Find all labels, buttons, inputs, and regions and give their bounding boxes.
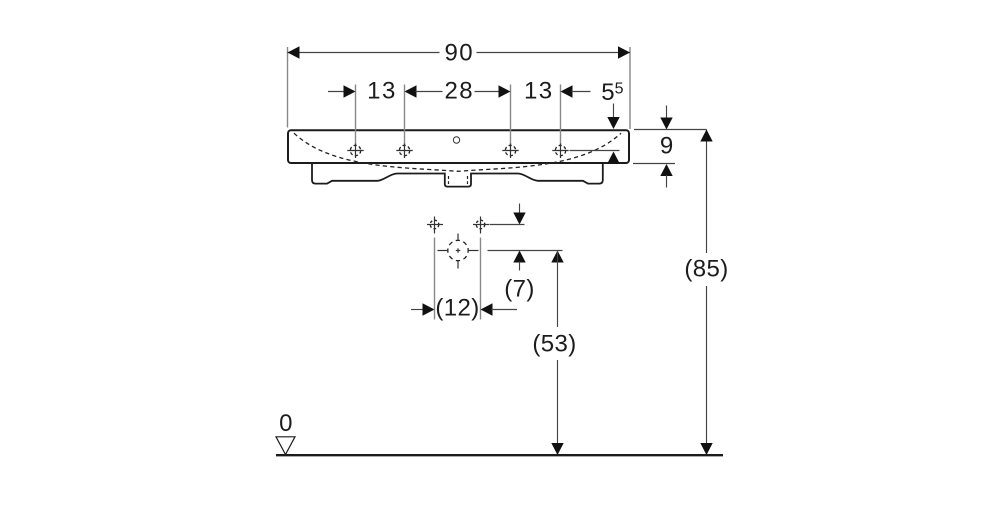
dimension 53 line upper [557,251,559,328]
dimension 85 line upper [706,130,708,254]
dimension 5.5 down arrow [607,117,619,129]
dimension 7 down arrow [513,213,525,225]
washbasin body rectangle [288,130,629,163]
svg-text:(12): (12) [435,295,479,322]
overflow hole [453,137,459,143]
basin interior dashed curve [294,133,621,171]
dimension 85 line lower [706,286,708,455]
svg-text:(85): (85) [684,256,728,283]
dimension 85 up arrow [700,130,712,142]
dimension 9 top extension line [634,129,707,131]
dimension 53 down arrow [551,443,563,455]
dimension 90 line [288,52,440,54]
dimension 12 arrow left [423,303,435,315]
dimension 28 line left [416,91,443,93]
fixing hole height reference line [490,224,525,226]
dimension 12 arrow right [481,303,493,315]
hole extension line 3 [510,85,512,144]
dimension 13 left leader line [328,91,345,93]
dimension 90 extension line right [629,47,631,129]
drain height reference line [488,250,563,252]
hole extension line 4 [560,85,562,144]
svg-text:0: 0 [279,410,292,437]
pedestal profile [312,164,603,187]
dimension 7 stub below [519,262,521,271]
dimension 5.5 up arrow [607,152,619,164]
siphon hidden edge left [448,176,450,184]
dimension 7 up arrow [513,251,525,263]
tap hole 2 [396,143,412,158]
dimension 28 arrow right [499,85,511,97]
hole extension line 2 [404,85,406,144]
svg-text:13: 13 [524,78,554,105]
svg-text:90: 90 [444,40,474,67]
fixing hole extension line left [434,238,436,320]
fixing hole right [473,217,489,234]
siphon hidden edge right [467,176,469,184]
hole extension line 1 [355,85,357,144]
svg-text:(53): (53) [532,331,576,358]
dimension 28 line right [475,91,500,93]
dimension 9 up arrow [660,164,672,176]
tap hole 4 [552,143,568,158]
dimension 53 line lower [557,360,559,455]
dimension 12 leader line right [492,309,518,311]
dimension 5.5 stub above [613,104,615,119]
dimension 53 up arrow [551,251,563,263]
dimension 9 bottom extension line [633,163,675,165]
svg-text:(7): (7) [504,276,535,303]
dimension 5.5 leader line [572,91,591,93]
drain circle [438,234,479,269]
fixing hole extension line right [480,238,482,320]
tap hole 3 [502,143,518,158]
floor line [276,454,723,456]
dimension 9 stub above [666,106,668,119]
svg-text:13: 13 [367,78,397,105]
dimension 85 down arrow [700,443,712,455]
dimension 9 stub below [666,175,668,188]
fixing hole left [427,217,443,234]
datum triangle [276,437,295,455]
dimension 9 down arrow [660,118,672,130]
tap hole 4 centerline extension [570,150,620,152]
dimension 12 leader line left [411,309,424,311]
dimension 28 arrow left [405,85,417,97]
dimension 13 left arrow [344,85,356,97]
dimension 7 stub above [519,204,521,214]
svg-text:9: 9 [660,133,673,160]
tap hole 1 [347,143,363,158]
dimension 5.5 arrow horizontal [561,85,573,97]
dimension 90 extension line left [287,47,289,128]
dimension 90 arrow right [618,46,630,58]
svg-text:28: 28 [444,78,474,105]
dimension 90 arrow left [288,46,300,58]
